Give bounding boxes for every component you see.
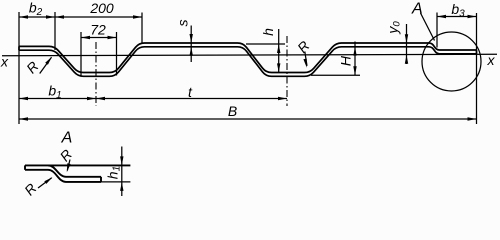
svg-text:b3: b3: [451, 1, 465, 20]
extension line for h at flange top: [246, 43, 285, 45]
neutral axis x-x: [2, 54, 497, 55]
svg-text:t: t: [188, 84, 193, 100]
dimension line B: [19, 118, 477, 120]
svg-text:R: R: [23, 58, 42, 76]
leader R detail upper bend: [67, 160, 70, 171]
svg-text:R: R: [294, 38, 313, 56]
extension line b2/200 boundary: [54, 12, 56, 50]
svg-text:h1: h1: [105, 166, 123, 179]
dimension line b1 and t: [19, 98, 287, 100]
dimension line b2 and 200: [19, 16, 142, 18]
arrow 200 right: [133, 15, 142, 18]
svg-text:b2: b2: [29, 0, 43, 18]
extension line 200 right: [141, 13, 143, 44]
arrow h top: [277, 44, 280, 53]
arrow b1 left: [19, 97, 28, 100]
detail sheet top S-bend: [48, 165, 101, 176]
arrow b3 right: [468, 15, 477, 18]
arrow h1 top: [120, 156, 123, 165]
extension line for H at trough bottom: [311, 74, 360, 76]
arrow 72 left: [81, 36, 90, 39]
arrow B right: [468, 117, 477, 120]
dimension line s (thickness): [190, 26, 192, 63]
profiled sheet cross-section, top surface line: [19, 43, 477, 73]
svg-text:B: B: [228, 103, 237, 119]
arrow 200 left: [55, 15, 64, 18]
extension line left edge: [18, 12, 20, 124]
arrow y0 bottom: [405, 55, 408, 64]
leader R detail lower bend: [38, 178, 52, 188]
arrow b2 right: [46, 15, 55, 18]
detail sheet right end cap: [100, 177, 102, 182]
extension line 72 left: [80, 32, 82, 76]
dimension line H: [354, 42, 356, 76]
extension line right edge: [476, 13, 478, 124]
svg-text:b1: b1: [48, 83, 61, 102]
dimension line 72: [81, 37, 117, 39]
svg-text:R: R: [56, 146, 75, 164]
arrow h1 bottom: [120, 182, 123, 191]
detail A circle: [422, 32, 481, 91]
arrow b3 left: [437, 15, 446, 18]
detail sheet left end cap: [24, 165, 26, 169]
arrow t left: [96, 97, 105, 100]
arrow y0 top: [405, 34, 408, 43]
arrow h bottom: [277, 63, 280, 72]
arrow s top: [190, 34, 193, 43]
arrow 72 right: [108, 36, 117, 39]
dimension line h: [278, 29, 280, 72]
arrow B left: [19, 117, 28, 120]
first trough centerline: [95, 42, 97, 106]
leader R first trough: [40, 57, 52, 73]
svg-text:A: A: [61, 130, 73, 147]
sheet left end cap: [18, 46, 20, 50]
h1 bottom extension line: [101, 181, 130, 183]
sheet right end cap: [476, 50, 478, 54]
dimension line h1: [121, 147, 123, 197]
svg-text:H: H: [338, 55, 354, 66]
svg-text:A: A: [411, 1, 423, 18]
profiled sheet cross-section, bottom surface line: [19, 47, 477, 77]
second trough centerline: [286, 36, 288, 106]
extension line 72 right: [116, 32, 118, 76]
arrow H bottom: [353, 66, 356, 75]
svg-text:s: s: [175, 20, 191, 27]
svg-text:x: x: [487, 52, 496, 68]
svg-text:72: 72: [90, 22, 106, 38]
svg-text:h: h: [260, 28, 276, 36]
detail sheet bottom line: [25, 170, 101, 182]
leader to detail A circle: [421, 13, 435, 41]
dimension line y0: [406, 24, 408, 64]
svg-text:y0: y0: [385, 21, 403, 35]
leader R second trough: [305, 52, 307, 66]
arrow s bottom: [190, 47, 193, 56]
svg-text:200: 200: [89, 0, 114, 16]
svg-text:R: R: [21, 180, 40, 198]
arrow b1 right: [87, 97, 96, 100]
extension line b3 left: [436, 13, 438, 48]
detail sheet top line with h1 extension: [25, 164, 130, 166]
dimension line b3: [437, 16, 477, 18]
arrow H top: [353, 47, 356, 56]
arrow b2 left: [19, 15, 28, 18]
svg-text:x: x: [0, 54, 9, 70]
arrow t right: [278, 97, 287, 100]
